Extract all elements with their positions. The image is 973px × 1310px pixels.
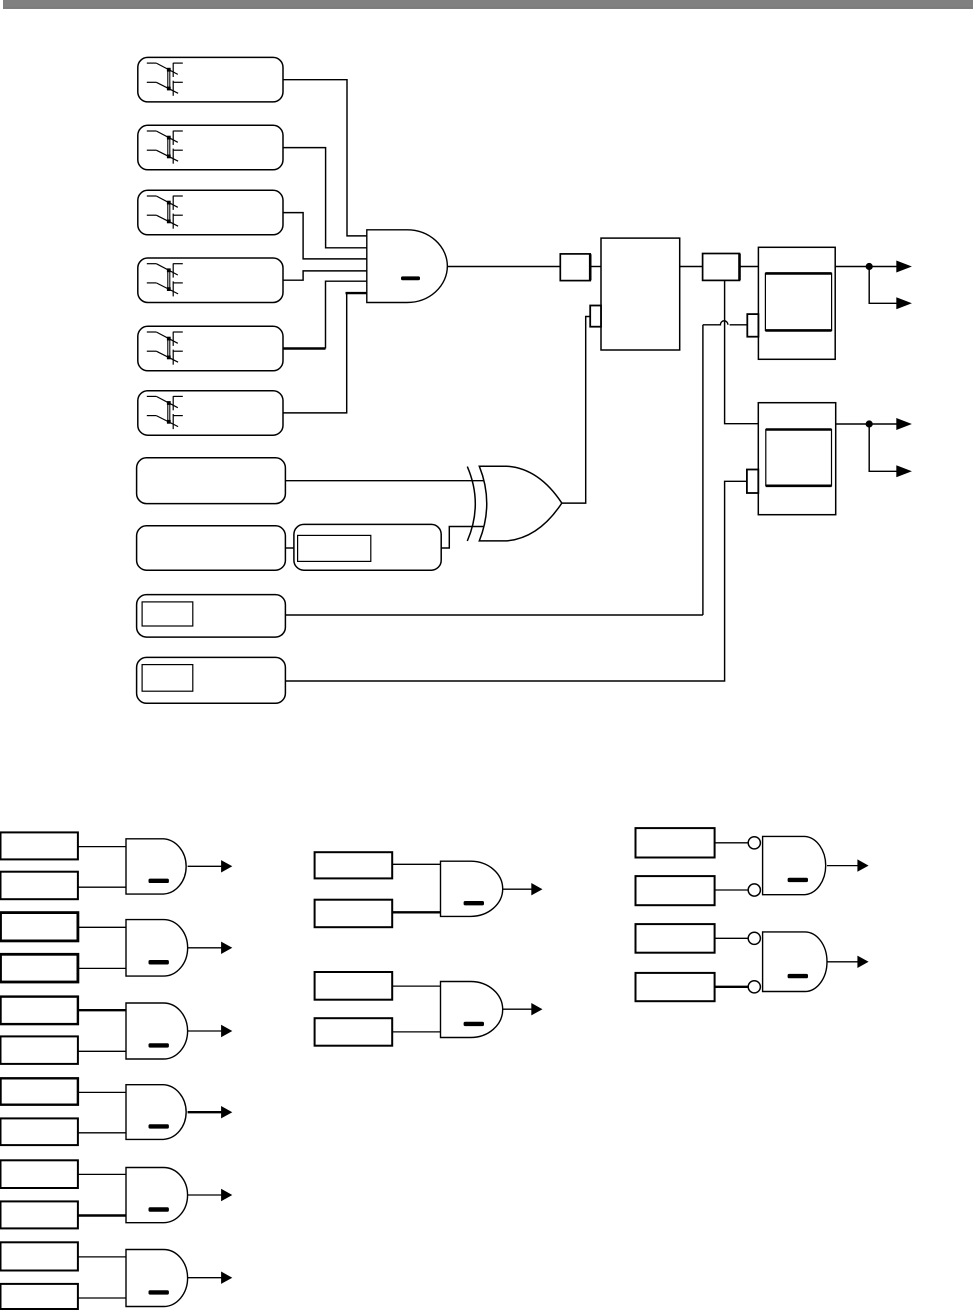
wire SW1 to U1 input 1 xyxy=(283,80,367,236)
connector box B1 xyxy=(560,254,590,281)
input box G2a xyxy=(1,913,78,941)
input box G10a xyxy=(636,924,715,953)
input box G10b xyxy=(636,973,715,1001)
input box G7a xyxy=(315,852,393,878)
input box G7b xyxy=(315,900,393,928)
wire G6b to gate xyxy=(78,1297,126,1299)
wire U1 output to box B1 xyxy=(447,266,560,268)
input box G5b xyxy=(1,1201,78,1228)
arrow G10 output xyxy=(857,956,868,968)
arrow G4 output xyxy=(221,1106,232,1118)
input box G5a xyxy=(1,1160,78,1188)
wire SW4 to U1 input 4 xyxy=(283,271,367,280)
inverter bubble G9 input b xyxy=(748,884,760,896)
wire G3b to gate xyxy=(78,1050,126,1052)
input block IN9 xyxy=(137,595,286,638)
input box G6b xyxy=(1,1284,78,1309)
arrow G6 output xyxy=(221,1272,232,1284)
and-gate G4 xyxy=(126,1085,186,1140)
input box G8a xyxy=(315,972,393,1000)
wire G6a to gate xyxy=(78,1256,126,1258)
input box G9b xyxy=(636,876,715,905)
switch input block SW6 xyxy=(138,391,283,436)
wire G7a to gate xyxy=(392,863,440,865)
wire SW5 riser to U1 input 5 xyxy=(326,281,367,348)
wire G8a to gate xyxy=(392,985,440,987)
input block IN7 xyxy=(137,458,286,504)
wire IN9 to K1 tab (with hop) xyxy=(285,321,747,615)
and-gate G6 xyxy=(126,1250,188,1307)
input box G4a xyxy=(1,1078,78,1104)
wire G9a to gate xyxy=(715,842,749,844)
arrow G7 output xyxy=(531,883,542,895)
wire G10b to gate xyxy=(715,986,749,988)
wire SW2 to U1 input 2 xyxy=(283,148,367,248)
wire G6 output xyxy=(188,1277,222,1279)
arrow K1 output 2 xyxy=(896,297,912,309)
wire K1 output branch xyxy=(869,267,897,304)
wire B2 to output block K1 xyxy=(740,266,759,268)
junction dot K1 xyxy=(866,263,873,270)
input box G6a xyxy=(1,1242,78,1270)
arrow G2 output xyxy=(221,942,232,954)
arrow G1 output xyxy=(221,860,232,872)
junction dot K2 xyxy=(866,420,873,427)
inverter bubble G10 input b xyxy=(748,981,760,993)
and-gate G9 xyxy=(763,836,826,894)
input box G3b xyxy=(1,1036,78,1064)
input block IN8 xyxy=(137,526,286,570)
wire K2 output xyxy=(836,423,898,425)
and-gate G7 xyxy=(441,861,503,916)
arrow G3 output xyxy=(221,1025,232,1037)
wire G2 output xyxy=(188,947,222,949)
tab T1 trigger input xyxy=(590,306,601,327)
arrow G5 output xyxy=(221,1189,232,1201)
input box G9a xyxy=(636,828,715,857)
wire G8 output xyxy=(503,1008,532,1010)
wire G1 output xyxy=(188,865,222,867)
wire X1 output to T1 tab xyxy=(562,317,590,504)
wire G9 output xyxy=(827,865,858,867)
wire B1 to timer T1 xyxy=(590,266,601,268)
wire K1 output xyxy=(835,266,897,268)
arrow K2 output 2 xyxy=(896,465,912,477)
input box G3a xyxy=(1,997,78,1025)
wire SW5 to U1 input 5 (thick segment) xyxy=(283,347,326,349)
wire G7b to gate xyxy=(392,911,440,913)
and-gate G5 xyxy=(126,1168,188,1223)
tab K2 set input xyxy=(747,470,758,494)
wire G10 output xyxy=(827,961,858,963)
wire G1b to gate xyxy=(78,886,126,888)
and-gate G8 xyxy=(441,982,503,1038)
wire B2 down to output block K2 xyxy=(725,280,759,423)
wire IN8b to XOR X1 input 2 xyxy=(441,527,484,549)
arrow K1 output 1 xyxy=(896,261,912,273)
timer block T1 xyxy=(601,238,680,350)
input box G8b xyxy=(315,1018,393,1045)
input box G1a xyxy=(1,832,78,859)
wire G4 output xyxy=(188,1111,222,1113)
wire G5b to gate xyxy=(78,1214,126,1216)
and-gate G1 xyxy=(126,839,186,894)
output block K2 xyxy=(758,403,835,515)
wire G4a to gate xyxy=(78,1091,126,1093)
wire G2a to gate xyxy=(78,926,126,928)
arrow K2 output 1 xyxy=(896,418,912,430)
and-gate G3 xyxy=(126,1003,188,1059)
wire SW3 to U1 input 3 xyxy=(283,213,367,259)
wire IN7 to XOR X1 input 1 xyxy=(285,480,484,482)
wire G1a to gate xyxy=(78,846,126,848)
arrow G9 output xyxy=(857,859,868,871)
wire G5 output xyxy=(188,1194,222,1196)
inverter bubble G10 input a xyxy=(748,932,760,944)
connector box B2 xyxy=(703,254,740,281)
and-gate G2 xyxy=(126,920,188,977)
wire G2b to gate xyxy=(78,967,126,969)
wire G3a to gate xyxy=(78,1009,126,1011)
wire G10a to gate xyxy=(715,937,749,939)
wire G4b to gate xyxy=(78,1132,126,1134)
switch input block SW1 xyxy=(138,57,283,102)
switch input block SW4 xyxy=(138,258,283,303)
switch input block SW3 xyxy=(138,190,283,235)
wire G9b to gate xyxy=(715,889,749,891)
switch input block SW2 xyxy=(138,125,283,170)
input box G4b xyxy=(1,1118,78,1145)
wire K2 output branch xyxy=(869,424,897,471)
input box G2b xyxy=(1,954,78,982)
inverter bubble G9 input a xyxy=(748,837,760,849)
output block K1 xyxy=(758,247,835,359)
and-gate U1 (6-input) xyxy=(367,230,448,303)
xor-gate X1 xyxy=(467,466,562,541)
tab K1 set input xyxy=(747,314,758,337)
arrow G8 output xyxy=(531,1003,542,1015)
switch input block SW5 xyxy=(138,326,283,371)
input block IN10 xyxy=(137,657,286,703)
wire IN8 to IN8b xyxy=(285,547,294,549)
wire G7 output xyxy=(503,888,532,890)
input box G1b xyxy=(1,872,78,900)
wire SW6 to U1 input 6 (thick segment) xyxy=(346,292,367,294)
wire T1 to box B2 xyxy=(680,266,703,268)
and-gate G10 xyxy=(763,932,827,992)
wire IN10 to K2 tab xyxy=(285,481,747,681)
wire G5a to gate xyxy=(78,1173,126,1175)
wire G8b to gate xyxy=(392,1031,440,1033)
input block IN8b xyxy=(294,524,441,570)
wire SW6 riser to U1 input 6 xyxy=(283,293,347,413)
header title bar xyxy=(3,0,973,9)
wire G3 output xyxy=(188,1030,222,1032)
